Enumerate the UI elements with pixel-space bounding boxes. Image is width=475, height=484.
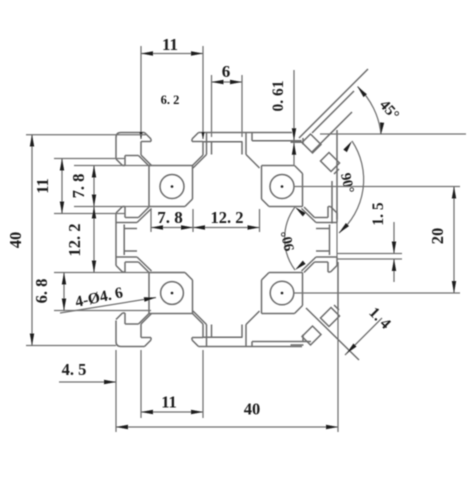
svg-text:11: 11 (162, 35, 178, 54)
svg-text:12. 2: 12. 2 (65, 224, 84, 257)
svg-text:12. 2: 12. 2 (211, 208, 244, 227)
svg-text:40: 40 (6, 232, 25, 249)
svg-text:11: 11 (161, 393, 177, 412)
svg-text:7. 8: 7. 8 (157, 208, 183, 227)
svg-text:6: 6 (222, 62, 231, 81)
svg-text:20: 20 (428, 228, 447, 245)
svg-text:7. 8: 7. 8 (69, 174, 88, 199)
svg-text:11: 11 (33, 178, 52, 194)
svg-text:0. 61: 0. 61 (270, 81, 287, 112)
svg-text:4. 5: 4. 5 (62, 360, 87, 379)
svg-text:40: 40 (244, 400, 261, 419)
svg-text:1. 5: 1. 5 (370, 202, 387, 226)
svg-text:6. 8: 6. 8 (32, 279, 51, 304)
svg-text:6. 2: 6. 2 (161, 93, 180, 107)
